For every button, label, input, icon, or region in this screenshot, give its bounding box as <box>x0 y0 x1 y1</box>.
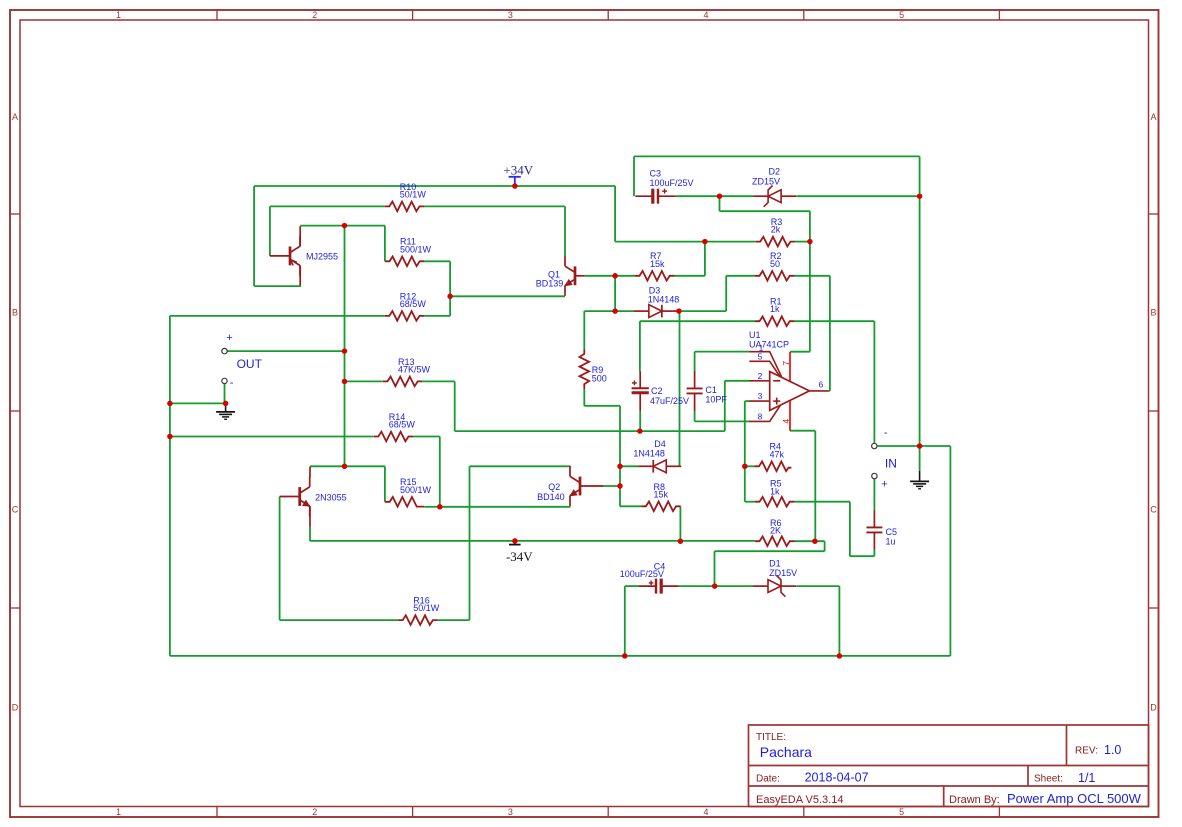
wire node to R2 branch <box>679 310 726 312</box>
wire C4 right to D1 <box>679 585 754 587</box>
svg-text:50/1W: 50/1W <box>400 189 427 199</box>
svg-text:-34V: -34V <box>506 549 533 564</box>
wire D4 row left <box>620 465 638 467</box>
svg-text:68/5W: 68/5W <box>400 299 427 309</box>
diode D4 <box>638 460 681 473</box>
svg-text:100uF/25V: 100uF/25V <box>650 178 694 188</box>
net flag +34V <box>503 163 533 184</box>
wire C4 drop <box>624 586 626 656</box>
wire R16 left <box>280 619 399 621</box>
svg-text:B: B <box>1150 308 1156 318</box>
junction R14 left node <box>167 434 173 440</box>
wire OUT- drop <box>224 383 226 403</box>
svg-text:15k: 15k <box>654 489 669 499</box>
junction -34V <box>512 538 518 544</box>
resistor R3 <box>756 237 795 247</box>
wire Q1 collector drop <box>564 206 566 256</box>
wire R10 row <box>270 205 385 207</box>
wire R5 left <box>745 501 755 503</box>
capacitor C3 <box>635 189 675 204</box>
diode D3 <box>634 305 677 318</box>
resistor R10 <box>385 202 424 212</box>
svg-text:OUT: OUT <box>237 357 263 371</box>
port OUT pin + <box>222 348 227 353</box>
svg-text:68/5W: 68/5W <box>389 420 416 430</box>
wire R7 right <box>674 275 705 277</box>
svg-text:-: - <box>230 377 234 389</box>
wire R5 right <box>794 501 850 503</box>
wire D2 node drop <box>719 196 721 211</box>
svg-text:D: D <box>12 702 19 712</box>
svg-text:4: 4 <box>781 419 791 424</box>
svg-text:C: C <box>1150 505 1157 515</box>
svg-text:2: 2 <box>312 807 317 817</box>
wire R15 right <box>424 506 439 508</box>
wire R12 right <box>424 315 450 317</box>
svg-text:Sheet:: Sheet: <box>1034 774 1063 785</box>
wire pin4 link <box>790 430 815 432</box>
svg-text:1/1: 1/1 <box>1078 771 1095 785</box>
junction IN- ground node <box>917 443 923 449</box>
wire opamp pin2 lead <box>725 380 750 382</box>
junction Q1 emitter node <box>447 294 453 300</box>
wire C3 to D2 <box>675 195 753 197</box>
svg-text:-: - <box>884 427 888 439</box>
svg-text:1.0: 1.0 <box>1104 743 1121 757</box>
port OUT pin - <box>222 378 227 383</box>
op-amp U1 pin 1 <box>749 352 781 377</box>
wire R9 bottom link <box>583 388 585 405</box>
svg-text:+: + <box>881 478 887 490</box>
wire bottom rail <box>170 655 951 657</box>
wire D3 to node <box>677 310 679 312</box>
wire R8 right drop <box>679 506 681 541</box>
op-amp U1 pin 5 <box>749 361 779 376</box>
svg-text:50/1W: 50/1W <box>413 603 440 613</box>
wire R1 row left <box>640 320 755 322</box>
wire MJ2955 emitter return <box>254 284 300 286</box>
junction R8 bottom node <box>678 538 684 544</box>
wire pin1 row <box>695 351 750 353</box>
transistor Q2 <box>569 466 604 506</box>
svg-text:2018-04-07: 2018-04-07 <box>805 771 869 785</box>
sheet column labels <box>116 10 904 817</box>
wire R11 left drop <box>384 226 386 262</box>
wire C2 bottom stub <box>639 411 641 431</box>
svg-text:1N4148: 1N4148 <box>648 295 680 305</box>
wire left loop vertical <box>253 186 255 286</box>
wire 2N3055 emitter drop <box>309 527 311 541</box>
svg-text:100uF/25V: 100uF/25V <box>620 569 664 579</box>
svg-text:B: B <box>12 308 18 318</box>
svg-text:Drawn By:: Drawn By: <box>949 794 1000 806</box>
resistor R14 <box>374 432 413 442</box>
wire R9 bottom jog <box>584 405 620 407</box>
transistor MJ2955 <box>270 226 300 285</box>
wire R2 right <box>794 275 830 277</box>
wire R3-R7 vertical <box>704 242 706 276</box>
svg-text:47K/5W: 47K/5W <box>398 364 431 374</box>
resistor R11 <box>385 257 424 267</box>
resistor R2 <box>755 271 794 281</box>
wire C1 bottom stub <box>694 411 696 422</box>
wire R13 drop <box>454 381 456 431</box>
svg-text:BD140: BD140 <box>537 492 565 502</box>
wire MJ2955 collector row <box>300 225 385 227</box>
sheet row labels <box>12 112 1158 712</box>
wire jog drop to R3 <box>809 211 811 241</box>
svg-text:ZD15V: ZD15V <box>769 568 797 578</box>
svg-text:47k: 47k <box>770 450 785 460</box>
wire R4 left <box>745 465 755 467</box>
junction collector row node <box>342 464 348 470</box>
wire Q1 base link <box>585 275 616 277</box>
wire pin7 link <box>790 351 810 353</box>
wire R1 to IN- vertical <box>873 321 875 443</box>
op-amp U1 <box>770 372 810 411</box>
wire Q1 emitter row <box>450 295 565 297</box>
svg-text:500: 500 <box>592 373 607 383</box>
junction +34V <box>512 183 518 189</box>
wire R16 riser <box>469 466 471 620</box>
op-amp U1 pin 4 <box>789 401 791 431</box>
svg-text:C3: C3 <box>650 169 662 179</box>
svg-text:2N3055: 2N3055 <box>315 492 347 502</box>
svg-text:Q2: Q2 <box>548 482 560 492</box>
svg-text:5: 5 <box>899 807 904 817</box>
op-amp U1 pin 8 <box>749 406 780 422</box>
wire R10 to Q1 <box>424 205 565 207</box>
wire R3 row left <box>615 241 756 243</box>
wire R6 right to corner <box>794 540 825 542</box>
svg-text:500/1W: 500/1W <box>400 244 432 254</box>
wire D3-D4 vertical <box>679 311 681 466</box>
wire R7 left <box>615 275 635 277</box>
wire IN ground stem <box>919 446 921 471</box>
svg-text:3: 3 <box>508 807 513 817</box>
op-amp U1 pin 6 <box>809 390 828 392</box>
junction top right node <box>917 193 923 199</box>
wire OUT+ row <box>227 350 344 352</box>
wire Q1 base node drop <box>614 276 616 311</box>
svg-text:3: 3 <box>758 391 763 401</box>
svg-text:2K: 2K <box>770 525 781 535</box>
net flag -34V <box>506 541 533 564</box>
junction D3 right node <box>676 308 682 314</box>
wire top right vertical <box>919 156 921 446</box>
wire R1 left riser <box>639 321 641 371</box>
svg-text:3: 3 <box>508 10 513 20</box>
resistor R4 <box>755 462 792 472</box>
port IN pin + <box>872 473 877 478</box>
wire pin3 lead <box>745 400 750 402</box>
ground at OUT <box>216 403 235 419</box>
svg-text:BD139: BD139 <box>536 279 564 289</box>
junction D2 left node <box>717 193 723 199</box>
junction OUT+ node <box>342 348 348 354</box>
wire R14-R15 vertical <box>439 437 441 507</box>
wire R13 left <box>345 380 383 382</box>
svg-text:1k: 1k <box>770 304 780 314</box>
wire MJ2955 base drop <box>269 206 271 256</box>
svg-text:D1: D1 <box>769 558 781 568</box>
junction C2 bottom node <box>637 428 643 434</box>
wire R13 right <box>422 380 455 382</box>
wire pin8 row <box>695 420 750 422</box>
wire IN+ to C5 <box>873 479 875 511</box>
svg-text:8: 8 <box>758 411 763 421</box>
wire to C4 row <box>715 550 825 552</box>
svg-text:10PF: 10PF <box>705 394 727 404</box>
wire D3 row left <box>584 310 634 312</box>
wire C3 left drop <box>633 156 635 196</box>
wire R16 right <box>437 619 469 621</box>
svg-text:IN: IN <box>885 456 897 470</box>
resistor R13 <box>383 377 422 387</box>
wire +34V rail top <box>254 185 615 187</box>
wire C2 bottom row <box>455 430 725 432</box>
wire C5 bottom stub <box>873 549 875 556</box>
wire opamp pin2 drop <box>724 381 726 431</box>
junction R3 left node <box>702 239 708 245</box>
junction D4 left node <box>617 464 623 470</box>
svg-text:A: A <box>12 112 18 122</box>
wire R15 left drop <box>384 466 386 502</box>
svg-text:1k: 1k <box>770 486 780 496</box>
wire to C5 bottom <box>850 555 875 557</box>
wire top wire drop <box>614 186 616 242</box>
wire pin3 vertical <box>744 401 746 502</box>
svg-text:1u: 1u <box>886 536 896 546</box>
wire C4 left <box>625 585 639 587</box>
junction OUT- ground <box>223 401 229 407</box>
wire left rail vertical <box>169 316 171 656</box>
resistor R7 <box>635 271 674 281</box>
svg-text:5: 5 <box>899 10 904 20</box>
svg-text:ZD15V: ZD15V <box>752 176 780 186</box>
wire R8 left <box>620 505 641 507</box>
wire right riser <box>949 446 951 656</box>
junction Q2 base node <box>617 483 623 489</box>
svg-text:MJ2955: MJ2955 <box>306 251 338 261</box>
svg-text:2: 2 <box>758 371 763 381</box>
wire corner drop <box>824 541 826 551</box>
wire R14 right <box>413 436 440 438</box>
wire R11-R12 vertical <box>449 261 451 316</box>
svg-text:D: D <box>1150 702 1157 712</box>
svg-text:4: 4 <box>703 10 708 20</box>
svg-text:1: 1 <box>116 807 121 817</box>
wire C1 top stub <box>694 352 696 372</box>
junction R4 left node <box>742 464 748 470</box>
junction D1 bottom node <box>837 653 843 659</box>
svg-text:1: 1 <box>116 10 121 20</box>
resistor R6 <box>755 536 794 546</box>
wire R9 jog drop <box>619 406 621 507</box>
svg-text:C2: C2 <box>651 386 663 396</box>
svg-text:Date:: Date: <box>756 774 780 785</box>
svg-text:5: 5 <box>758 351 763 361</box>
svg-text:2: 2 <box>312 10 317 20</box>
svg-text:15k: 15k <box>650 259 665 269</box>
wire center vertical node <box>344 226 346 467</box>
wire R12 row <box>170 315 385 317</box>
title block <box>749 725 1149 807</box>
wire R5 drop <box>849 502 851 557</box>
capacitor C4 <box>639 579 679 594</box>
svg-text:D2: D2 <box>769 166 781 176</box>
svg-text:Power Amp OCL 500W: Power Amp OCL 500W <box>1007 791 1142 806</box>
resistor R12 <box>385 311 424 321</box>
op-amp U1 pin 2 <box>749 380 769 382</box>
junction R15 right node <box>437 504 443 510</box>
resistor R5 <box>755 497 794 507</box>
wire riser to Q2 collector <box>470 465 571 467</box>
svg-text:EasyEDA V5.3.14: EasyEDA V5.3.14 <box>756 794 843 806</box>
svg-text:A: A <box>1150 112 1156 122</box>
op-amp U1 pin 7 <box>789 352 791 382</box>
wire pin6 link <box>828 390 830 392</box>
junction R6 right node <box>812 538 818 544</box>
wire IN- row <box>877 445 951 447</box>
junction D3 left node <box>612 308 618 314</box>
wire top rail <box>634 155 920 157</box>
wire R1 row right <box>794 320 874 322</box>
wire -34V rail <box>310 540 755 542</box>
capacitor C1 <box>687 371 703 411</box>
wire D1 drop to bottom rail <box>838 586 840 656</box>
junction left rail ground <box>167 401 173 407</box>
svg-text:1N4148: 1N4148 <box>633 448 665 458</box>
junction MJ2955 collector node <box>342 223 348 229</box>
svg-text:REV:: REV: <box>1075 746 1098 757</box>
junction Q1 base node <box>612 273 618 279</box>
svg-text:2k: 2k <box>771 225 781 235</box>
wire jog right <box>720 210 810 212</box>
wire pin4 drop <box>814 431 816 542</box>
svg-text:6: 6 <box>819 380 824 390</box>
svg-text:500/1W: 500/1W <box>400 485 432 495</box>
wire R9 top link <box>583 311 585 349</box>
ground at IN <box>910 471 929 489</box>
transistor Q1 <box>564 256 584 296</box>
resistor R15 <box>385 497 424 507</box>
junction C4 bottom node <box>622 653 628 659</box>
resistor R1 <box>755 316 794 326</box>
junction R13 left node <box>342 379 348 385</box>
resistor R8 <box>641 502 680 512</box>
svg-text:UA741CP: UA741CP <box>749 339 789 349</box>
wire pin7 riser <box>809 242 811 352</box>
wire 2N3055 collector row <box>310 465 385 467</box>
svg-text:50: 50 <box>770 259 780 269</box>
wire R2 left drop <box>725 276 727 311</box>
wire R14 left <box>170 436 374 438</box>
wire R11 right <box>424 260 450 262</box>
zener diode D2 <box>753 186 796 207</box>
wire R2 to pin6 vertical <box>829 276 831 391</box>
capacitor C5 <box>866 511 882 550</box>
wire R3 row right <box>795 241 810 243</box>
svg-text:+: + <box>226 332 232 344</box>
junction C4 right node <box>712 583 718 589</box>
wire Q2 base link <box>604 485 620 487</box>
svg-text:C: C <box>12 505 19 515</box>
capacitor C2 <box>632 371 649 411</box>
wire C4 junction drop <box>714 551 716 586</box>
transistor 2N3055 <box>280 467 311 527</box>
wire OUT ground link <box>170 402 226 404</box>
port IN pin - <box>872 443 877 448</box>
svg-text:4: 4 <box>703 807 708 817</box>
wire 2N3055 base drop <box>279 497 281 621</box>
junction R3 right node <box>807 239 813 245</box>
svg-text:TITLE:: TITLE: <box>756 732 786 743</box>
resistor R9 <box>580 349 590 388</box>
wire D2 right <box>796 195 919 197</box>
resistor R16 <box>398 615 437 625</box>
wire D1 right <box>796 585 839 587</box>
wire R15 to Q2 emitter <box>440 506 571 508</box>
svg-text:C1: C1 <box>705 385 717 395</box>
svg-text:47uF/25V: 47uF/25V <box>650 396 689 406</box>
op-amp U1 pin 3 <box>749 400 769 402</box>
wire R2 left <box>726 275 755 277</box>
svg-text:Pachara: Pachara <box>760 744 812 760</box>
zener diode D1 <box>753 576 796 597</box>
svg-text:+34V: +34V <box>503 163 533 178</box>
svg-text:7: 7 <box>781 361 791 366</box>
